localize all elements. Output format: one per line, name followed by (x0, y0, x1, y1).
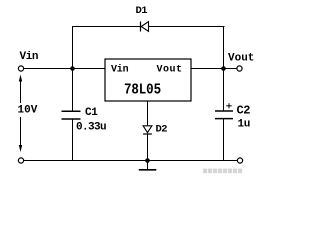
wire input (24, 68, 105, 70)
wire D2 branch upper (147, 101, 149, 126)
node output junction (221, 66, 226, 71)
regulator U1 78L05 box (105, 59, 191, 101)
diode D1 (141, 22, 149, 32)
wire top rail left segment (72, 26, 140, 28)
terminal bottom-left (18, 158, 23, 163)
wire right vertical upper (223, 26, 225, 111)
wire left vertical upper (72, 26, 74, 111)
capacitor C1 (62, 111, 81, 119)
ground (139, 161, 157, 170)
wire right vertical lower (223, 119, 225, 161)
svg-text:Vin: Vin (20, 51, 39, 63)
wire D2 branch lower (147, 134, 149, 161)
svg-text:C1: C1 (85, 107, 98, 119)
svg-text:10V: 10V (18, 105, 38, 117)
svg-text:Vout: Vout (157, 65, 183, 76)
svg-text:78L05: 78L05 (124, 83, 161, 99)
wire top rail right segment (149, 26, 225, 28)
capacitor C2 (215, 111, 233, 119)
svg-text:Vin: Vin (111, 64, 129, 76)
terminal bottom-right (237, 158, 242, 163)
terminal Vout (237, 66, 242, 71)
node ground junction (145, 158, 150, 163)
wire bottom rail (24, 160, 237, 162)
watermark (203, 169, 242, 174)
svg-text:0.33u: 0.33u (76, 122, 106, 134)
svg-text:D2: D2 (156, 124, 168, 136)
node input junction (70, 66, 75, 71)
diode D2 (143, 126, 152, 134)
source 10V arrow down (19, 117, 22, 152)
capacitor C2 polarity plus (226, 103, 232, 108)
svg-text:Vout: Vout (228, 53, 254, 65)
terminal Vin (18, 66, 23, 71)
svg-text:C2: C2 (237, 104, 251, 118)
svg-text:D1: D1 (136, 5, 148, 17)
source 10V arrow up (19, 75, 22, 104)
wire output (191, 68, 237, 70)
svg-text:1u: 1u (238, 119, 250, 131)
wire left vertical lower (72, 119, 74, 161)
